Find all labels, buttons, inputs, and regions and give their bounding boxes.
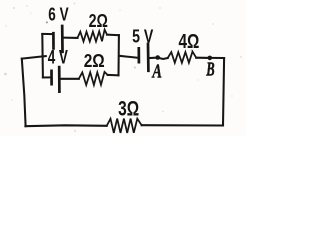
wire: bottom right segment [142, 124, 223, 126]
resistor R=3Ω (bottom wire) [107, 119, 142, 133]
wire: left inner vertical joining 6V and 4V branch left ends [41, 34, 44, 77]
node A (junction dot) [155, 55, 160, 60]
resistor R=4Ω (middle branch) [168, 52, 197, 63]
wire: 4Ω resistor to node B [196, 57, 210, 59]
scan speckles (paper noise) [4, 3, 242, 133]
svg-text:4Ω: 4Ω [179, 31, 200, 53]
wire: right inner vertical joining branch right ends [117, 35, 119, 75]
wire: top branch right segment to corner [107, 34, 119, 37]
wire: from 5V battery to node A [150, 57, 158, 59]
battery 6V [53, 26, 62, 52]
svg-text:3Ω: 3Ω [118, 98, 139, 121]
wire: top branch left segment from corner to 6V battery [42, 33, 52, 35]
svg-text:B: B [205, 58, 214, 81]
wire: bottom left segment [25, 124, 106, 127]
wire: middle branch from inner junction to 5V battery [119, 56, 138, 58]
wire: 4V branch left segment [43, 76, 51, 78]
resistor R=2Ω (lower branch) [79, 72, 108, 85]
svg-text:6 V: 6 V [48, 4, 69, 25]
wire: node B to right outer corner [210, 57, 224, 59]
wire: node A to 4Ω resistor (slight dip) [158, 58, 168, 59]
wire: left outer vertical [22, 59, 26, 127]
svg-text:A: A [152, 59, 163, 82]
resistor R=2Ω (top branch) [78, 30, 108, 42]
svg-text:2Ω: 2Ω [84, 51, 105, 71]
battery 5V [139, 44, 149, 71]
battery 4V [52, 67, 60, 92]
wire: tap from left junction to left outer conductor (crosses with overshoot) [22, 56, 46, 59]
wire: 4V branch right segment to corner [108, 74, 119, 76]
wire: 4V branch between battery and 2Ω resistor [61, 78, 79, 80]
wire: right outer vertical [223, 58, 224, 126]
svg-text:2Ω: 2Ω [89, 11, 108, 31]
wire: top branch between 6V battery and 2Ω resistor [64, 37, 78, 39]
node B (junction dot) [208, 56, 213, 61]
svg-text:5 V: 5 V [132, 26, 154, 47]
svg-text:4 V: 4 V [48, 48, 68, 69]
